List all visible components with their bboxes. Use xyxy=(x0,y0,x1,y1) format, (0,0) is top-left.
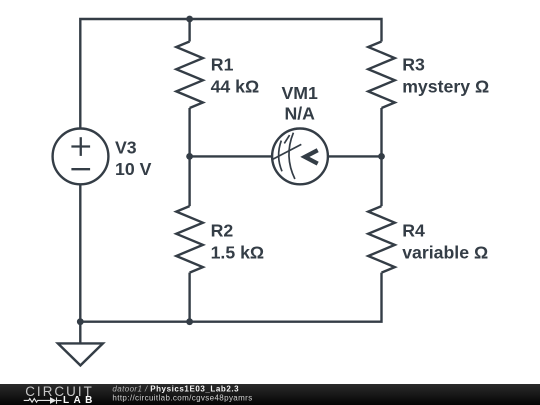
svg-text:R4: R4 xyxy=(402,220,425,240)
svg-text:N/A: N/A xyxy=(284,103,315,123)
svg-text:1.5 kΩ: 1.5 kΩ xyxy=(211,242,265,262)
svg-text:http://circuitlab.com/cgvse48p: http://circuitlab.com/cgvse48pyamrs xyxy=(112,394,252,403)
svg-text:datoor1 /: datoor1 / xyxy=(112,384,148,393)
svg-text:R2: R2 xyxy=(211,220,234,240)
svg-text:Physics1E03_Lab2.3: Physics1E03_Lab2.3 xyxy=(150,384,239,393)
svg-text:variable Ω: variable Ω xyxy=(402,242,488,262)
svg-text:VM1: VM1 xyxy=(282,83,319,103)
svg-text:44 kΩ: 44 kΩ xyxy=(211,76,260,96)
svg-text:10 V: 10 V xyxy=(115,159,152,179)
svg-text:R1: R1 xyxy=(211,55,234,75)
svg-text:LAB: LAB xyxy=(63,395,92,405)
svg-text:R3: R3 xyxy=(402,55,425,75)
svg-text:V3: V3 xyxy=(115,138,137,158)
svg-text:mystery Ω: mystery Ω xyxy=(402,76,489,96)
